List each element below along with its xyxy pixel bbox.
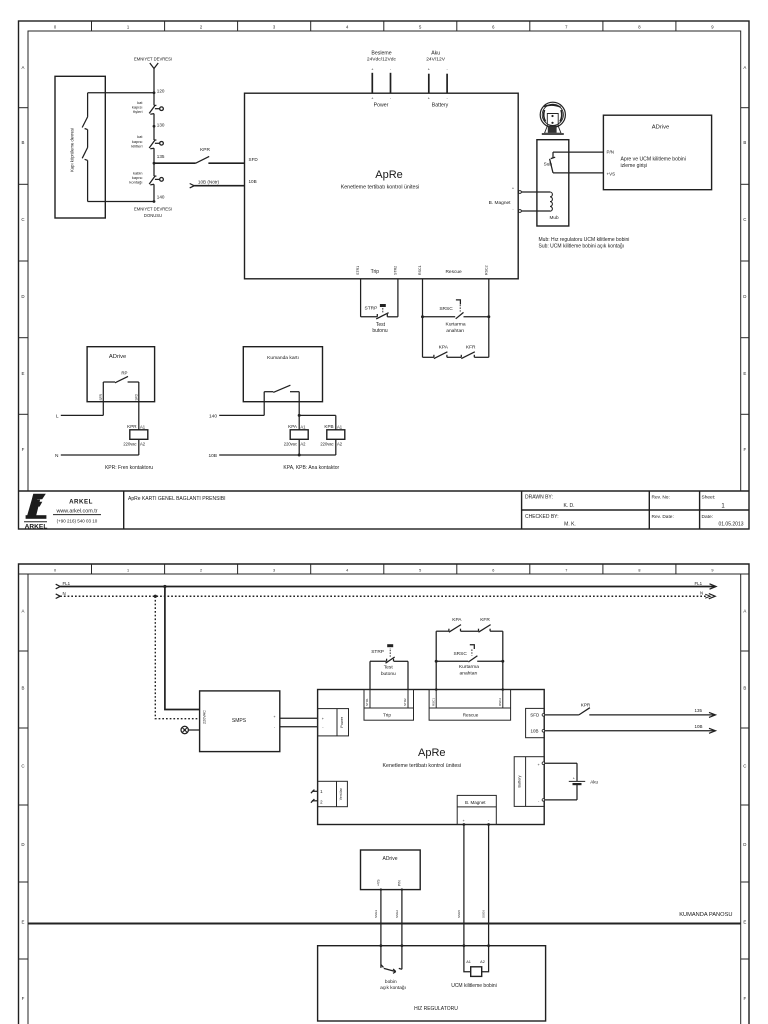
svg-text:ADrive: ADrive — [652, 125, 669, 131]
wire SMPS- to Power — [280, 726, 318, 728]
svg-text:D: D — [21, 294, 24, 299]
svg-text:butonu: butonu — [381, 671, 396, 677]
svg-text:EMNIYET DEVRESI: EMNIYET DEVRESI — [134, 57, 172, 62]
svg-text:RSC1: RSC1 — [418, 265, 422, 275]
pin RSC2 (s2) — [498, 690, 503, 709]
svg-text:140: 140 — [157, 195, 165, 200]
svg-text:5: 5 — [419, 569, 421, 573]
wire B.Magnet + — [512, 186, 550, 193]
svg-text:P/N: P/N — [607, 150, 615, 155]
svg-text:butonu: butonu — [372, 328, 388, 334]
svg-text:STR1: STR1 — [365, 698, 369, 706]
svg-text:B: B — [22, 140, 25, 145]
wire L — [56, 402, 103, 420]
svg-text:F: F — [743, 996, 746, 1001]
svg-text:0: 0 — [54, 569, 56, 573]
svg-text:8: 8 — [638, 569, 640, 573]
battery input Aku — [426, 51, 448, 72]
switch SRSC (s2) — [436, 645, 503, 677]
svg-text:N: N — [63, 591, 66, 596]
svg-text:F: F — [743, 447, 746, 452]
node junction — [463, 823, 466, 826]
svg-text:220vac: 220vac — [123, 441, 136, 446]
wire — [153, 148, 155, 176]
svg-text:Power: Power — [374, 102, 389, 108]
svg-text:A: A — [743, 65, 746, 70]
svg-text:Kumanda kartı: Kumanda kartı — [267, 355, 299, 361]
svg-text:kilitleri: kilitleri — [131, 143, 142, 148]
wire rescue leg 1 — [422, 279, 424, 358]
svg-text:KPA, KPB: Ana kontaktor: KPA, KPB: Ana kontaktor — [283, 465, 339, 471]
svg-text:STRP: STRP — [365, 306, 378, 312]
wire SMPS+ to Power — [280, 717, 318, 719]
node junction — [298, 454, 301, 457]
svg-text:RSC1: RSC1 — [431, 698, 435, 706]
svg-text:EMNIYET DEVRESI: EMNIYET DEVRESI — [134, 207, 172, 212]
ARKEL logo — [24, 494, 101, 531]
note Mub/Sub — [539, 237, 630, 250]
svg-text:Sub: UCM kilitleme bobini açık: Sub: UCM kilitleme bobini açık kontağı — [539, 244, 625, 250]
svg-text:220vac: 220vac — [320, 441, 333, 446]
svg-text:A1: A1 — [466, 960, 471, 964]
svg-text:KPA: KPA — [439, 344, 449, 350]
node junction — [487, 315, 490, 318]
svg-text:135: 135 — [695, 708, 703, 713]
wire power stub - — [390, 73, 392, 93]
svg-text:220vac: 220vac — [284, 441, 297, 446]
wire trip leg 2 — [397, 279, 399, 317]
svg-text:B. Magnet: B. Magnet — [465, 800, 486, 805]
svg-text:KPA: KPA — [452, 617, 462, 623]
svg-text:C: C — [743, 217, 746, 222]
pin block Trip — [364, 690, 414, 721]
svg-text:RSC2: RSC2 — [498, 698, 502, 706]
svg-text:2: 2 — [200, 569, 202, 573]
node junction — [401, 944, 404, 947]
svg-text:SFR: SFR — [99, 393, 103, 400]
Kumanda karti unit — [243, 347, 322, 402]
svg-text:N: N — [700, 591, 703, 596]
wire stub pin 1 — [311, 790, 318, 794]
svg-text:Kenetleme tertibatı kontrol ün: Kenetleme tertibatı kontrol ünitesi — [341, 185, 420, 191]
svg-text:KPR: Fren kontaktoru: KPR: Fren kontaktoru — [105, 465, 153, 471]
switch Sub — [544, 152, 556, 173]
svg-text:SMPS: SMPS — [232, 718, 247, 724]
svg-text:A2: A2 — [337, 441, 343, 446]
svg-text:01.05.2013: 01.05.2013 — [718, 522, 743, 528]
coil KPR 220vac — [123, 402, 147, 455]
contact bobin acik kontagi — [380, 965, 406, 992]
wire battery stub + — [428, 74, 430, 94]
svg-text:ApRe KARTI GENEL BAGLANTI PREN: ApRe KARTI GENEL BAGLANTI PRENSIBI — [128, 496, 226, 502]
svg-text:Battery: Battery — [432, 102, 449, 108]
svg-text:KPR: KPR — [127, 424, 137, 429]
pushbutton STRP test butonu — [361, 304, 398, 334]
svg-text:120: 120 — [157, 89, 165, 94]
svg-text:Vent.fan: Vent.fan — [339, 788, 343, 801]
svg-text:E: E — [22, 371, 25, 376]
battery Aku — [545, 763, 599, 800]
svg-text:E: E — [22, 919, 25, 924]
svg-text:Battery: Battery — [518, 775, 522, 787]
svg-text:www.arkel.com.tr: www.arkel.com.tr — [55, 509, 97, 515]
wire KPB branch — [299, 415, 336, 429]
svg-text:ADrive: ADrive — [109, 354, 126, 360]
svg-text:F: F — [22, 996, 25, 1001]
svg-text:KPB: KPB — [324, 424, 333, 429]
svg-text:ARKEL: ARKEL — [25, 524, 48, 531]
svg-text:24V/12V: 24V/12V — [426, 56, 446, 62]
pin block SFD/10B — [526, 708, 545, 737]
wire rescue leg 2 — [488, 279, 490, 358]
wire trip leg 1 — [360, 279, 362, 317]
svg-text:P/N: P/N — [397, 880, 401, 886]
pin STR2 (s2) — [403, 690, 408, 709]
pin Battery — [428, 97, 449, 109]
coil KPA 220vac — [284, 424, 308, 455]
wire ADrive leg 1 — [380, 890, 382, 968]
svg-text:A2: A2 — [480, 960, 485, 964]
contact kat kapisi fisleri — [132, 100, 164, 114]
ApRe unit U1 (sheet2) — [318, 690, 545, 825]
svg-text:Apre ve UCM kilitleme bobini: Apre ve UCM kilitleme bobini — [621, 156, 686, 162]
svg-text:HIZ REGULATORU: HIZ REGULATORU — [414, 1006, 458, 1012]
title block — [19, 491, 750, 529]
node junction — [463, 944, 466, 947]
node junction — [502, 688, 505, 691]
svg-text:bobin: bobin — [385, 979, 397, 985]
node junction — [380, 944, 383, 947]
relay contact (kumanda) — [264, 385, 299, 402]
svg-text:KUMANDA PANOSU: KUMANDA PANOSU — [679, 912, 732, 918]
node junction — [435, 688, 438, 691]
svg-text:4: 4 — [346, 569, 348, 573]
svg-text:6: 6 — [492, 569, 494, 573]
svg-text:KFR: KFR — [480, 617, 490, 623]
svg-text:140: 140 — [209, 414, 217, 420]
svg-text:Date:: Date: — [702, 514, 713, 520]
svg-text:DRAWN BY:: DRAWN BY: — [525, 494, 553, 500]
svg-text:KPA: KPA — [288, 424, 298, 429]
svg-text:SFD: SFD — [530, 713, 540, 718]
wire B.Magnet - — [512, 207, 550, 213]
svg-text:KPR: KPR — [200, 147, 210, 153]
pin block Vent — [318, 781, 348, 806]
svg-text:FL1: FL1 — [695, 581, 703, 586]
svg-text:STRP: STRP — [371, 649, 384, 655]
node junction — [380, 888, 382, 890]
contact kabin kapisi kontagi — [129, 170, 163, 185]
wire 10B notr — [190, 179, 245, 188]
svg-text:C: C — [21, 763, 24, 768]
switch SRSC kurtarma anahtari — [423, 300, 489, 334]
svg-text:Kurtarma: Kurtarma — [445, 322, 465, 328]
svg-text:A1: A1 — [300, 425, 306, 430]
svg-text:220VAC: 220VAC — [203, 710, 207, 724]
svg-text:B. Magnet: B. Magnet — [489, 200, 512, 206]
svg-text:fişleri: fişleri — [133, 109, 142, 114]
svg-text:7: 7 — [565, 569, 567, 573]
svg-text:KPR: KPR — [581, 703, 591, 708]
svg-text:E: E — [743, 371, 746, 376]
svg-text:SSG3: SSG3 — [374, 910, 378, 918]
box kapi kopruleme devresi — [55, 76, 105, 218]
svg-text:KFR: KFR — [466, 344, 476, 350]
pin RSC1 (s2) — [431, 690, 436, 709]
contact KFR (s2) — [461, 617, 503, 632]
wire N — [55, 453, 139, 459]
wire rescue leg 1 (s2) — [435, 631, 437, 689]
svg-text:10B: 10B — [695, 724, 703, 729]
node junction — [401, 888, 403, 890]
svg-text:SFD: SFD — [249, 157, 259, 162]
wire bridge bottom — [88, 201, 154, 203]
contact KPR (s2) — [545, 703, 591, 715]
contact KPR (to SFD) — [154, 147, 245, 163]
ground PE symbol — [181, 726, 200, 733]
svg-text:Rev. No:: Rev. No: — [652, 494, 670, 500]
wire B.Magnet leg 1 — [463, 825, 465, 971]
svg-text:ADrive: ADrive — [382, 856, 397, 862]
svg-text:1: 1 — [127, 569, 129, 573]
svg-text:Besleme: Besleme — [371, 51, 391, 57]
ApRe unit U1 — [245, 93, 519, 279]
svg-text:(+90 216) 540 03 10: (+90 216) 540 03 10 — [57, 519, 98, 524]
sheet 2 outer border frame — [19, 564, 750, 1024]
contact KPA (s2) — [436, 617, 462, 632]
box Sub/Mub — [537, 140, 569, 226]
relay contact RP — [103, 370, 139, 401]
svg-text:C: C — [21, 217, 24, 222]
svg-text:Kapı köprüleme devresi: Kapı köprüleme devresi — [70, 128, 75, 172]
svg-text:F: F — [22, 447, 25, 452]
svg-text:STR1: STR1 — [356, 266, 360, 275]
coil Mub — [549, 192, 559, 220]
node junction — [501, 660, 504, 663]
node 130 — [153, 122, 165, 127]
coil KPB 220vac — [320, 424, 344, 455]
svg-text:Test: Test — [376, 322, 386, 328]
svg-text:Trip: Trip — [383, 713, 391, 718]
svg-text:SFD: SFD — [134, 393, 138, 400]
svg-text:10B: 10B — [530, 729, 538, 734]
wire stub pin 2 — [311, 799, 318, 803]
node junction — [421, 315, 424, 318]
svg-text:CHECKED BY:: CHECKED BY: — [525, 514, 559, 520]
pin block B. Magnet (s2) — [457, 795, 496, 824]
node junction FL1 — [163, 585, 166, 588]
svg-text:Rev. Date:: Rev. Date: — [652, 514, 674, 520]
svg-text:DONUSU: DONUSU — [144, 213, 162, 218]
wire 10B — [208, 453, 335, 459]
contact kat kapisi kilitleri — [131, 134, 163, 149]
svg-text:ARKEL: ARKEL — [69, 499, 93, 506]
wire safety chain top — [153, 69, 155, 106]
wire bridge top — [88, 92, 154, 94]
svg-text:A: A — [743, 608, 746, 613]
wire — [153, 114, 155, 140]
svg-text:FL1: FL1 — [63, 581, 71, 586]
svg-text:10B: 10B — [249, 179, 257, 184]
svg-text:Aku: Aku — [431, 51, 440, 57]
svg-text:B: B — [22, 686, 25, 691]
svg-text:A2: A2 — [300, 441, 306, 446]
wire N to SMPS (dashed) — [155, 596, 199, 719]
wire rescue leg 2 (s2) — [502, 631, 504, 689]
wire trip leg 2 (s2) — [407, 661, 409, 689]
svg-text:C: C — [743, 763, 746, 768]
svg-text:L: L — [56, 414, 59, 420]
svg-text:SSG2: SSG2 — [395, 910, 399, 918]
node junction — [487, 944, 490, 947]
wire FL1 to SMPS — [165, 587, 200, 710]
wire B.Magnet leg 2 — [488, 825, 490, 971]
node junction — [298, 414, 301, 417]
svg-text:K. D.: K. D. — [563, 503, 574, 509]
wire power stub + — [371, 73, 373, 93]
wire Sub to P/N — [553, 151, 603, 153]
overspeed governor icon — [540, 102, 565, 134]
svg-text:Sheet:: Sheet: — [702, 494, 716, 500]
svg-text:Rescue: Rescue — [445, 269, 462, 275]
svg-text:A1: A1 — [337, 425, 343, 430]
svg-text:24Vdc/12Vdc: 24Vdc/12Vdc — [367, 56, 397, 62]
svg-text:STR2: STR2 — [403, 698, 407, 706]
wire 10B out — [545, 724, 716, 733]
pin block Rescue — [429, 690, 511, 721]
svg-text:A2: A2 — [140, 441, 146, 446]
svg-text:Kurtarma: Kurtarma — [459, 664, 479, 670]
node 135 — [153, 154, 165, 164]
svg-text:130: 130 — [157, 122, 165, 127]
svg-text:135: 135 — [157, 154, 165, 159]
wire — [153, 184, 155, 201]
svg-text:Test: Test — [384, 665, 394, 671]
SMPS power supply — [200, 691, 280, 752]
pin block Power — [318, 709, 349, 736]
svg-text:SSG5: SSG5 — [457, 910, 461, 918]
pin block Battery (s2) — [514, 757, 545, 807]
svg-text:9: 9 — [711, 569, 713, 573]
svg-text:RSC2: RSC2 — [485, 265, 489, 275]
wire trip leg 1 (s2) — [369, 661, 371, 689]
svg-text:Mub: Mub — [549, 215, 559, 220]
contact KFR (rescue) — [447, 344, 489, 358]
switch bypass contact 1 — [82, 93, 87, 148]
node EMNIYET DEVRESI (safety circuit input) — [134, 57, 172, 69]
svg-text:UCM kilitleme bobini: UCM kilitleme bobini — [451, 983, 497, 989]
svg-text:A1: A1 — [140, 425, 146, 430]
wire 140 — [209, 402, 264, 420]
svg-text:ApRe: ApRe — [418, 747, 446, 759]
node 120 — [153, 89, 165, 95]
svg-text:Aku: Aku — [590, 780, 598, 785]
svg-text:A: A — [22, 608, 25, 613]
svg-text:B: B — [743, 686, 746, 691]
ADrive unit (sheet1 bottom-left) — [87, 347, 155, 402]
svg-text:kontağı: kontağı — [129, 180, 142, 185]
wire 135 out — [589, 708, 715, 717]
svg-text:RP: RP — [121, 370, 127, 375]
svg-text:3: 3 — [273, 569, 275, 573]
svg-text:N: N — [55, 453, 59, 459]
node junction — [487, 823, 490, 826]
ADrive unit (sheet1 right) — [603, 115, 711, 190]
svg-text:D: D — [743, 294, 746, 299]
wire Sub to +VS — [553, 172, 603, 174]
svg-text:M. K.: M. K. — [564, 522, 576, 528]
svg-text:Rescue: Rescue — [463, 713, 479, 718]
switch bypass contact 2 — [82, 148, 87, 202]
node junction — [435, 660, 438, 663]
svg-text:STR2: STR2 — [393, 266, 397, 275]
svg-text:ApRe: ApRe — [375, 169, 403, 181]
svg-text:B: B — [743, 140, 746, 145]
contact KPA (rescue) — [423, 344, 449, 358]
svg-text:D: D — [743, 842, 746, 847]
svg-text:izleme girişi: izleme girişi — [621, 163, 648, 169]
net N neutral line (dashed) — [56, 591, 716, 599]
pushbutton STRP (s2) — [370, 644, 408, 677]
wire KPA branch — [298, 402, 300, 430]
label emniyet devresi donusu — [134, 207, 172, 219]
wire battery stub - — [446, 74, 448, 94]
svg-text:10B (Nötr): 10B (Nötr) — [198, 179, 220, 184]
power supply input Besleme — [367, 51, 397, 72]
svg-text:+VS: +VS — [607, 172, 616, 177]
svg-text:10B: 10B — [208, 453, 217, 459]
pin Power — [371, 97, 392, 109]
ADrive unit (sheet2) — [361, 850, 421, 890]
svg-text:Power: Power — [340, 716, 344, 727]
kumanda panosu boundary — [28, 912, 741, 924]
svg-text:Trip: Trip — [371, 269, 380, 275]
svg-text:E: E — [743, 919, 746, 924]
svg-text:anahtarı: anahtarı — [446, 328, 464, 334]
HIZ REGULATORU unit — [318, 946, 546, 1021]
node 140 — [153, 195, 165, 203]
svg-text:D: D — [21, 842, 24, 847]
wire ADrive leg 2 — [401, 890, 403, 970]
svg-text:anahtarı: anahtarı — [460, 671, 478, 677]
svg-text:SRSC: SRSC — [439, 306, 453, 312]
svg-text:Kenetleme tertibatı kontrol ün: Kenetleme tertibatı kontrol ünitesi — [382, 763, 461, 769]
coil UCM kilitleme bobini — [451, 960, 497, 989]
svg-text:A: A — [22, 65, 25, 70]
svg-text:SRSC: SRSC — [453, 651, 467, 657]
svg-text:açık kontağı: açık kontağı — [380, 985, 406, 991]
node junction N — [154, 595, 157, 598]
svg-text:SSG6: SSG6 — [482, 910, 486, 918]
pin STR1 (s2) — [365, 690, 370, 709]
svg-text:+VS: +VS — [376, 879, 380, 886]
svg-text:Mub: Hız regulatoru UCM kilitl: Mub: Hız regulatoru UCM kilitleme bobini — [539, 237, 630, 243]
net FL1 phase line — [56, 581, 716, 589]
sheet 1 outer border frame — [19, 21, 750, 529]
